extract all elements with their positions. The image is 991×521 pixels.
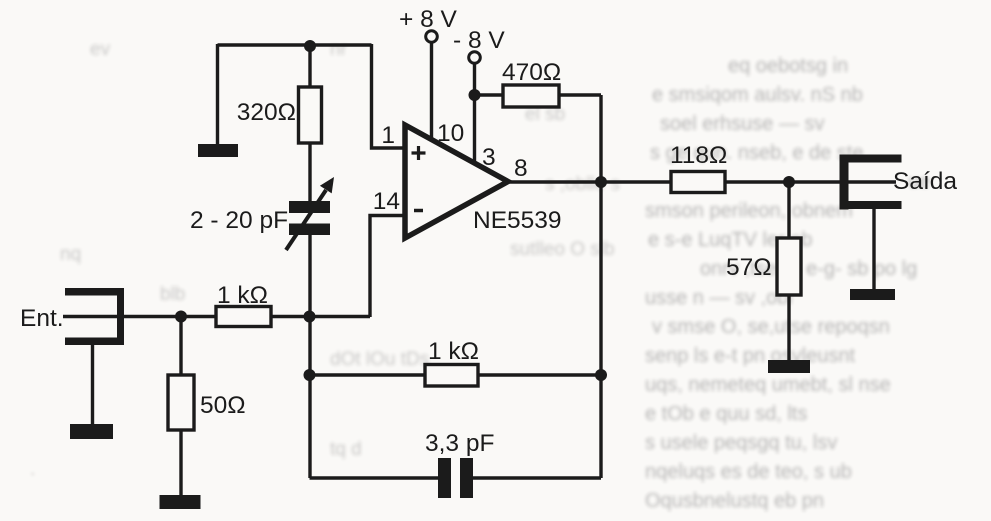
svg-text:e smsiqom aulsv. nS nb: e smsiqom aulsv. nS nb — [652, 84, 863, 106]
svg-text:blb: blb — [160, 284, 185, 305]
svg-text:1 kΩ: 1 kΩ — [217, 282, 268, 309]
svg-text:57Ω: 57Ω — [726, 254, 772, 281]
svg-text:470Ω: 470Ω — [502, 59, 561, 86]
svg-text:50Ω: 50Ω — [200, 392, 246, 419]
svg-text:.: . — [30, 459, 35, 480]
svg-text:8: 8 — [514, 155, 528, 182]
svg-text:nqeluqs es de teo, s ub: nqeluqs es de teo, s ub — [645, 461, 852, 483]
svg-text:soel erhsuse — sv: soel erhsuse — sv — [660, 113, 825, 135]
svg-text:tq d: tq d — [330, 439, 362, 460]
svg-text:14: 14 — [373, 188, 400, 215]
svg-text:1 kΩ: 1 kΩ — [428, 338, 479, 365]
svg-text:senp ls e-t pn osvleusnt: senp ls e-t pn osvleusnt — [645, 345, 856, 367]
svg-text:+ 8 V: + 8 V — [399, 6, 458, 33]
svg-text:eq oebotsg in: eq oebotsg in — [728, 55, 848, 77]
svg-text:sutlleo O slb: sutlleo O slb — [510, 239, 615, 260]
svg-text:e tOb e quu sd, lts: e tOb e quu sd, lts — [645, 403, 807, 425]
svg-text:118Ω: 118Ω — [670, 142, 727, 169]
svg-text:smson perileon, obnem: smson perileon, obnem — [645, 200, 853, 222]
svg-text:usse n — sv ,obi: usse n — sv ,obi — [645, 287, 793, 309]
svg-text:10: 10 — [437, 120, 464, 147]
svg-text:3,3 pF: 3,3 pF — [425, 430, 494, 457]
svg-text:nq: nq — [60, 244, 81, 265]
svg-text:s ,oblle s: s ,oblle s — [545, 174, 620, 195]
svg-text:Saída: Saída — [893, 168, 957, 195]
svg-text:nr: nr — [330, 39, 348, 60]
svg-text:3: 3 — [482, 144, 496, 171]
svg-text:v smse O, se,utse repoqsn: v smse O, se,utse repoqsn — [652, 316, 890, 338]
svg-text:2 - 20 pF: 2 - 20 pF — [190, 207, 288, 234]
svg-text:s usele peqsgq tu, lsv: s usele peqsgq tu, lsv — [645, 432, 837, 454]
svg-text:Ent.: Ent. — [20, 305, 64, 332]
svg-text:- 8 V: - 8 V — [453, 27, 505, 54]
svg-text:ev: ev — [90, 39, 111, 60]
svg-text:320Ω: 320Ω — [237, 99, 296, 126]
svg-text:dOt lOu tDs: dOt lOu tDs — [330, 349, 429, 370]
svg-text:1: 1 — [381, 122, 395, 149]
svg-text:Oqusbnelustq eb pn: Oqusbnelustq eb pn — [645, 490, 824, 512]
svg-text:uqs, nemeteq umebt, sl nse: uqs, nemeteq umebt, sl nse — [645, 374, 891, 396]
svg-text:NE5539: NE5539 — [473, 207, 562, 234]
